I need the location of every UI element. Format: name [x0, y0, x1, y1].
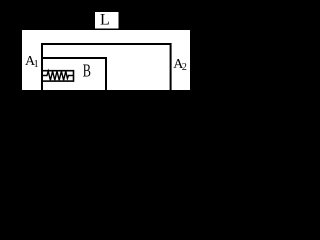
svg-text:L: L [100, 12, 110, 29]
inner chamber rectangle (wall A1 to wall A2) [42, 44, 171, 91]
block B rectangle [42, 58, 106, 91]
label box L (white tag above container) [95, 12, 119, 29]
svg-text:B: B [83, 61, 91, 81]
spring S zigzag [42, 71, 74, 80]
spring case rectangle [42, 71, 74, 81]
container outer box (big white rectangle) [22, 30, 190, 90]
